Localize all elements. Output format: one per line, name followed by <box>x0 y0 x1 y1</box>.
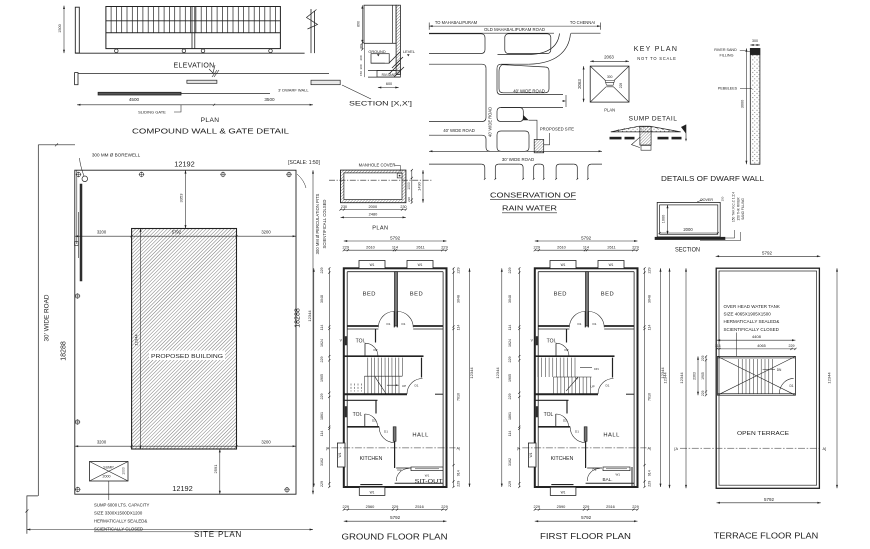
svg-text:1490: 1490 <box>417 181 422 190</box>
svg-text:PLAN: PLAN <box>372 226 388 232</box>
svg-text:2000: 2000 <box>683 227 693 232</box>
dwarf wall section: 1000 dim <box>667 205 669 234</box>
svg-text:SCIENTICALLY CLOSED: SCIENTICALLY CLOSED <box>94 527 143 532</box>
ff: toilet 2 <box>566 400 568 413</box>
section x-x: hatched wall column <box>396 5 400 74</box>
svg-text:5792: 5792 <box>390 235 401 240</box>
svg-text:229: 229 <box>648 481 652 487</box>
ff: ventilator V <box>536 337 538 346</box>
svg-text:SIZE 4065X1905X1500: SIZE 4065X1905X1500 <box>724 312 772 317</box>
svg-text:MANHOLE COVER: MANHOLE COVER <box>359 163 396 168</box>
svg-text:D1: D1 <box>415 383 419 387</box>
svg-text:PEBBLEES: PEBBLEES <box>718 87 738 91</box>
svg-text:FIRST FLOOR PLAN: FIRST FLOOR PLAN <box>540 531 631 541</box>
svg-text:5792: 5792 <box>762 251 773 256</box>
ff: bed partition wall <box>586 272 589 326</box>
svg-text:3048: 3048 <box>457 295 461 303</box>
percolation column: river sand black top <box>750 48 760 55</box>
svg-text:GROUND FLOOR PLAN: GROUND FLOOR PLAN <box>342 532 448 542</box>
svg-text:914: 914 <box>648 470 652 476</box>
manhole plan: manhole cover square <box>397 173 402 178</box>
svg-text:HALL: HALL <box>412 432 429 438</box>
svg-text:18288: 18288 <box>295 308 302 328</box>
svg-text:2000: 2000 <box>103 475 111 479</box>
gf: bed partition wall <box>395 272 398 326</box>
gf: toilet 2 <box>375 400 377 413</box>
svg-text:230: 230 <box>341 205 347 209</box>
svg-text:SUMP: SUMP <box>103 466 114 470</box>
svg-text:114: 114 <box>648 325 652 331</box>
svg-text:LEVEL: LEVEL <box>403 49 416 54</box>
svg-text:18288: 18288 <box>61 341 68 361</box>
svg-text:SCIENTIFICALLY CLOSED: SCIENTIFICALLY CLOSED <box>724 327 780 332</box>
svg-text:200: 200 <box>359 55 363 60</box>
svg-text:300: 300 <box>752 39 758 43</box>
svg-text:1500: 1500 <box>58 24 62 32</box>
key plan: 40ft wide road horizontal branch <box>501 94 563 96</box>
section x-x: diagonal hatch lower right <box>389 52 404 77</box>
ff: wall below toilet2 / kitchen top <box>538 426 570 428</box>
svg-text:229: 229 <box>701 355 705 361</box>
gf: outer walls <box>344 268 447 487</box>
svg-text:12344: 12344 <box>134 334 139 346</box>
svg-text:D1: D1 <box>402 322 406 326</box>
svg-text:D1: D1 <box>387 322 391 326</box>
svg-text:SECTION: SECTION <box>675 246 700 253</box>
svg-text:W1: W1 <box>529 452 533 457</box>
svg-text:229: 229 <box>789 344 795 348</box>
svg-text:KITCHEN: KITCHEN <box>360 456 383 462</box>
svg-text:1000: 1000 <box>122 467 126 475</box>
svg-text:2610: 2610 <box>557 244 566 249</box>
svg-text:300 MM Ø BOREWELL: 300 MM Ø BOREWELL <box>92 152 141 157</box>
sump detail: right flag marker <box>681 125 686 134</box>
svg-text:D2: D2 <box>372 418 376 422</box>
svg-text:30' WIDE ROAD: 30' WIDE ROAD <box>502 157 534 162</box>
svg-text:5792: 5792 <box>390 515 401 520</box>
svg-text:914: 914 <box>457 470 461 476</box>
svg-text:UP: UP <box>402 384 406 388</box>
svg-text:229: 229 <box>534 244 541 249</box>
svg-text:229: 229 <box>508 357 512 363</box>
ff: bottom dimension chain <box>535 509 638 511</box>
svg-text:OPEN TERRACE: OPEN TERRACE <box>737 431 789 437</box>
svg-text:2063: 2063 <box>577 79 582 89</box>
svg-text:12344: 12344 <box>827 372 832 384</box>
svg-text:D1: D1 <box>789 384 793 388</box>
gate elevation: left dimension 1500 <box>63 6 65 54</box>
key plan: vertical 40ft road edges <box>429 68 486 121</box>
svg-text:229: 229 <box>343 504 350 509</box>
svg-text:DN: DN <box>777 368 782 372</box>
ff: toilet 1 <box>566 329 568 343</box>
svg-text:1861: 1861 <box>508 412 512 420</box>
svg-text:1905: 1905 <box>701 372 705 380</box>
ff: kitchen bottom window W1 <box>551 484 573 486</box>
ff: kitchen right wall <box>585 441 587 468</box>
svg-text:1905: 1905 <box>320 374 324 382</box>
svg-text:SITE PLAN: SITE PLAN <box>194 530 242 539</box>
svg-text:600: 600 <box>386 82 392 86</box>
terrace: stair door D1 <box>779 378 793 393</box>
terrace: right 12344 dim <box>836 268 838 488</box>
svg-text:PROPOSED BUILDING: PROPOSED BUILDING <box>151 354 223 360</box>
ff: section line A-A <box>522 447 646 449</box>
svg-text:W1: W1 <box>609 263 614 267</box>
svg-text:2516: 2516 <box>415 504 424 509</box>
svg-text:CONSERVATION OF: CONSERVATION OF <box>490 190 577 199</box>
key plan: top road bottom edge <box>429 32 554 34</box>
pyramid sump plan: square with diagonals <box>590 66 629 102</box>
svg-text:40' WIDE ROAD: 40' WIDE ROAD <box>443 128 475 133</box>
site plan: proposed building hatched <box>132 229 237 450</box>
svg-text:GROUND: GROUND <box>368 49 385 54</box>
svg-text:D2: D2 <box>593 468 597 472</box>
site plan: sump box with cross <box>90 462 129 482</box>
svg-text:2591: 2591 <box>213 464 218 474</box>
svg-text:3' DWARF WALL: 3' DWARF WALL <box>278 87 309 92</box>
svg-text:229: 229 <box>632 504 639 509</box>
gf: ventilator V <box>345 337 347 346</box>
gate elevation: wheels <box>115 49 119 53</box>
gf: left kitchen window W1 <box>337 443 345 467</box>
svg-text:TOI.: TOI. <box>353 412 363 418</box>
ff: left dimension chains <box>518 268 520 487</box>
ff: stair treads dn/up <box>538 358 591 394</box>
svg-text:229: 229 <box>632 244 639 249</box>
svg-text:3048: 3048 <box>648 295 652 303</box>
compound wall plan: sliding gate leaf <box>98 92 181 95</box>
svg-text:A|: A| <box>648 447 652 451</box>
sump detail: hatched central column <box>640 127 651 146</box>
terrace: outer walls <box>716 268 819 488</box>
svg-text:300 MM Ø PERCULATION PITS: 300 MM Ø PERCULATION PITS <box>315 193 320 254</box>
svg-text:229: 229 <box>343 244 350 249</box>
svg-text:NOT TO SCALE: NOT TO SCALE <box>637 56 676 61</box>
svg-text:12344: 12344 <box>662 372 667 384</box>
dwarf wall section: black base <box>655 237 726 240</box>
gate elevation: ground line <box>75 52 304 54</box>
svg-text:5792: 5792 <box>764 497 775 502</box>
svg-text:D2: D2 <box>374 348 378 352</box>
svg-text:D1: D1 <box>593 322 597 326</box>
svg-text:D2: D2 <box>398 468 402 472</box>
site plan: right 18288 dim <box>312 170 314 494</box>
key plan: 30ft wide road arrowed top edge <box>429 150 602 152</box>
gate elevation: gate frame and panels <box>106 7 281 49</box>
svg-text:BAL.: BAL. <box>603 477 613 482</box>
gf: stair area top wall <box>344 355 424 357</box>
svg-text:D1: D1 <box>606 383 610 387</box>
site plan: 30ft road left edge <box>37 145 39 496</box>
svg-text:300: 300 <box>607 75 613 79</box>
svg-text:114: 114 <box>508 431 512 437</box>
svg-text:2363: 2363 <box>693 372 697 380</box>
svg-text:150: 150 <box>359 71 363 76</box>
svg-text:W1: W1 <box>418 263 423 267</box>
site plan: 12344 building left dim <box>140 229 142 450</box>
dimension 4500 / 3500 <box>77 104 313 106</box>
svg-text:1905: 1905 <box>508 374 512 382</box>
svg-text:3200: 3200 <box>261 440 271 445</box>
svg-text:229: 229 <box>320 357 324 363</box>
svg-text:4065: 4065 <box>757 344 765 348</box>
gf: section line A-A <box>331 447 455 449</box>
svg-text:150: 150 <box>721 196 725 201</box>
svg-text:OLD MAHABALIPURAM ROAD: OLD MAHABALIPURAM ROAD <box>484 27 545 32</box>
pyramid dims <box>590 60 629 62</box>
svg-text:229: 229 <box>392 504 399 509</box>
svg-text:W1: W1 <box>370 263 375 267</box>
svg-text:|A: |A <box>517 447 521 451</box>
section x-x: dimension 890 <box>361 5 363 43</box>
svg-text:[A: [A <box>674 447 678 451</box>
svg-text:RIVER SAND: RIVER SAND <box>714 48 737 52</box>
svg-text:3353: 3353 <box>179 193 184 203</box>
gate elevation: left gate post <box>75 7 79 53</box>
svg-text:2610: 2610 <box>366 244 375 249</box>
compound wall plan: dwarf wall bars <box>187 80 217 83</box>
manhole plan: bottom dims <box>341 209 406 211</box>
site plan: top dim row 3200/5792/3200 <box>75 235 296 237</box>
svg-text:12344: 12344 <box>495 367 500 379</box>
svg-text:230: 230 <box>400 205 406 209</box>
sump detail: funnel sides <box>632 137 640 147</box>
svg-text:COMPOUND WALL & GATE DETAIL: COMPOUND WALL & GATE DETAIL <box>132 127 289 136</box>
svg-text:229: 229 <box>534 504 541 509</box>
svg-text:ELEVATION: ELEVATION <box>174 63 215 70</box>
svg-text:114: 114 <box>583 244 590 249</box>
svg-text:HALL: HALL <box>603 432 620 438</box>
svg-text:SLIDING GATE: SLIDING GATE <box>138 110 166 115</box>
key plan: 30ft road bottom edge with street gaps <box>429 163 602 165</box>
svg-text:D1: D1 <box>384 429 388 433</box>
ff: top windows W1 <box>550 261 576 269</box>
gf: wall below bedrooms <box>347 325 378 327</box>
key plan: small rounded blocks next to vertical road <box>497 108 523 122</box>
svg-text:2590: 2590 <box>557 504 566 509</box>
section x-x: post outline <box>364 5 396 43</box>
svg-text:12192: 12192 <box>172 484 193 493</box>
svg-text:229: 229 <box>441 244 448 249</box>
sump detail: thick dashed ground lines <box>610 137 622 140</box>
dwarf wall section: 2000 dim <box>660 232 718 234</box>
svg-text:40' WIDE ROAD: 40' WIDE ROAD <box>488 107 493 137</box>
site plan: percolation pit circles <box>76 172 80 176</box>
svg-text:TO CHENNAI: TO CHENNAI <box>570 20 595 25</box>
svg-text:TO MAHABALIPURAM: TO MAHABALIPURAM <box>435 20 478 25</box>
svg-text:D1: D1 <box>575 429 579 433</box>
key plan: block row 1 <box>429 34 485 54</box>
svg-text:A]: A] <box>823 447 827 451</box>
manhole plan: centreline <box>329 179 432 181</box>
svg-text:3162: 3162 <box>508 458 512 466</box>
gf: sitout / balcony <box>396 467 411 469</box>
ff: stair area top wall <box>535 355 615 357</box>
key plan: proposed site flag and hatch square <box>534 140 544 153</box>
svg-text:2000: 2000 <box>368 204 377 209</box>
svg-text:SECTION [X,X']: SECTION [X,X'] <box>349 101 412 108</box>
manhole plan: right dims <box>411 170 413 203</box>
gf: kitchen door D1 <box>379 427 394 442</box>
site plan: proposed building label <box>149 351 225 361</box>
ff: bedroom doors D1 D1 <box>569 311 585 327</box>
terrace: stair box with cross <box>718 356 796 395</box>
svg-text:SAND FILLING: SAND FILLING <box>741 198 745 220</box>
gf: stair right wall + door D1 <box>421 358 423 378</box>
compound wall plan: wall line with end post <box>75 73 78 85</box>
ff: kitchen door D1 <box>570 427 585 442</box>
svg-text:5792: 5792 <box>581 235 592 240</box>
gf: top windows W1 <box>359 261 385 269</box>
svg-text:TERRACE FLOOR PLAN: TERRACE FLOOR PLAN <box>714 531 819 541</box>
svg-text:4408: 4408 <box>752 334 762 339</box>
svg-text:PROPOSED SITE: PROPOSED SITE <box>540 127 574 132</box>
section x-x: dimension 600 <box>378 87 399 89</box>
svg-text:229: 229 <box>508 394 512 400</box>
svg-text:30' WIDE ROAD: 30' WIDE ROAD <box>44 294 51 341</box>
svg-text:1624: 1624 <box>320 339 324 347</box>
svg-text:DETAILS OF DWARF WALL: DETAILS OF DWARF WALL <box>661 176 764 183</box>
leader line to section title <box>342 85 371 99</box>
svg-text:3200: 3200 <box>97 440 107 445</box>
svg-text:3200: 3200 <box>97 230 107 235</box>
svg-text:A|: A| <box>457 447 461 451</box>
ff: wall below bedrooms <box>538 325 569 327</box>
svg-text:1000: 1000 <box>661 215 665 223</box>
svg-text:114: 114 <box>320 431 324 437</box>
svg-text:12344: 12344 <box>307 310 312 322</box>
svg-text:2611: 2611 <box>416 244 424 249</box>
svg-text:W1: W1 <box>561 491 566 495</box>
pyramid sump plan: centre funnel <box>605 81 615 87</box>
svg-text:2560: 2560 <box>366 504 375 509</box>
terrace: leader from note to stair box <box>735 333 737 357</box>
svg-text:KEY PLAN: KEY PLAN <box>634 46 679 53</box>
svg-text:229: 229 <box>320 394 324 400</box>
dwarf wall section: box <box>657 202 720 237</box>
svg-text:SCIENTIFICALL COLSED: SCIENTIFICALL COLSED <box>322 200 327 249</box>
svg-text:OVER HEAD WATER TANK: OVER HEAD WATER TANK <box>724 304 780 309</box>
svg-text:PLAN: PLAN <box>604 108 615 113</box>
svg-text:W1: W1 <box>338 452 342 457</box>
svg-text:890: 890 <box>357 21 361 27</box>
manhole plan: hatched border rectangle <box>341 170 406 203</box>
ff: sitout / balcony <box>587 467 602 469</box>
svg-text:4500: 4500 <box>129 97 140 102</box>
svg-text:PLAN: PLAN <box>201 117 220 124</box>
svg-text:D1: D1 <box>578 322 582 326</box>
ff: outer walls <box>535 268 638 487</box>
svg-text:HERMATICALLY SEALED&: HERMATICALLY SEALED& <box>94 519 147 524</box>
percolation column: pebbles stipple fill <box>751 55 759 163</box>
ff: stair bottom wall <box>535 393 598 395</box>
svg-text:DN: DN <box>594 367 598 371</box>
svg-text:12192: 12192 <box>174 160 195 169</box>
gf: stair treads <box>365 358 403 394</box>
svg-text:3048: 3048 <box>508 295 512 303</box>
svg-text:SIT-OUT: SIT-OUT <box>415 479 444 485</box>
svg-text:BED: BED <box>363 292 376 298</box>
gf: stair bottom wall <box>344 393 407 395</box>
key plan: diagonal road curves <box>526 33 560 54</box>
percolation column: 3000 dim <box>745 48 747 164</box>
svg-text:D2: D2 <box>565 348 569 352</box>
svg-text:W1: W1 <box>561 263 566 267</box>
svg-text:[SCALE: 1:50]: [SCALE: 1:50] <box>288 160 320 166</box>
svg-text:KITCHEN: KITCHEN <box>551 456 574 462</box>
terrace: section line A-A <box>680 447 821 449</box>
svg-text:229: 229 <box>457 268 461 274</box>
gf: kitchen right wall <box>394 441 396 468</box>
svg-text:12344: 12344 <box>679 372 684 384</box>
svg-text:3500: 3500 <box>264 97 275 102</box>
gf: kitchen bottom window W1 <box>360 484 382 486</box>
svg-text:1624: 1624 <box>508 339 512 347</box>
svg-text:SUMP 6000 LTS. CAPACITY: SUMP 6000 LTS. CAPACITY <box>94 503 150 508</box>
svg-text:229: 229 <box>320 481 324 487</box>
svg-text:230: 230 <box>407 197 411 202</box>
svg-text:5792: 5792 <box>581 515 592 520</box>
svg-text:1000: 1000 <box>407 182 411 190</box>
gf: up arrow <box>375 377 387 395</box>
svg-text:BED: BED <box>554 292 567 298</box>
svg-text:2063: 2063 <box>604 54 614 59</box>
svg-text:2611: 2611 <box>607 244 615 249</box>
svg-text:TOL: TOL <box>544 412 554 418</box>
terrace: left 12344 dims <box>669 268 671 488</box>
section x-x: left small dims <box>361 43 363 49</box>
svg-text:114: 114 <box>457 325 461 331</box>
gf: toilet 1 <box>375 329 377 343</box>
svg-text:1861: 1861 <box>320 412 324 420</box>
svg-text:TOI.: TOI. <box>547 338 557 344</box>
svg-text:D2: D2 <box>563 418 567 422</box>
key plan: second road edges <box>498 54 527 56</box>
svg-text:114: 114 <box>320 325 324 331</box>
svg-text:HERMATICALLY SEALED&: HERMATICALLY SEALED& <box>724 319 780 324</box>
ff: stair right wall + door D1 <box>612 358 614 378</box>
svg-text:W1: W1 <box>370 491 375 495</box>
svg-text:229: 229 <box>583 504 590 509</box>
svg-text:TOI.: TOI. <box>356 338 366 344</box>
svg-text:W1: W1 <box>425 474 430 478</box>
terrace: 114 4065 229 dim <box>717 348 796 350</box>
site plan: bottom overall dimension line <box>27 529 313 531</box>
svg-text:3048: 3048 <box>320 295 324 303</box>
svg-text:3162: 3162 <box>320 458 324 466</box>
gf: left dimension chains <box>328 268 330 487</box>
svg-text:7610: 7610 <box>457 393 461 401</box>
svg-text:RAIN WATER: RAIN WATER <box>502 203 557 212</box>
terrace: stair box left dims <box>705 356 707 395</box>
svg-text:3200: 3200 <box>261 230 271 235</box>
gate elevation: right compound wall with break <box>310 9 312 53</box>
svg-text:229: 229 <box>457 481 461 487</box>
site plan: 2591 dim below building <box>219 449 221 494</box>
key plan: top arrowed road line <box>429 25 600 27</box>
site plan: sump leader <box>108 481 110 500</box>
svg-text:150 THK R.C.C 1:2:4: 150 THK R.C.C 1:2:4 <box>732 192 736 222</box>
svg-text:229: 229 <box>508 481 512 487</box>
svg-text:229: 229 <box>701 390 705 396</box>
svg-text:229: 229 <box>619 83 623 89</box>
svg-text:7610: 7610 <box>648 393 652 401</box>
svg-text:114: 114 <box>392 244 399 249</box>
site plan: boundary rectangle <box>75 170 296 494</box>
section x-x: footing steps <box>371 54 389 64</box>
svg-text:229: 229 <box>648 268 652 274</box>
